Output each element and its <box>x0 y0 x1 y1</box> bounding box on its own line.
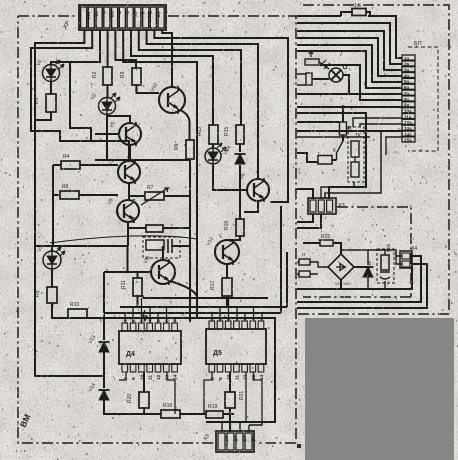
resistor R8 <box>47 287 57 303</box>
wire V8 down to rail <box>127 223 129 246</box>
wire R13 to VD4 <box>212 144 214 148</box>
svg-text:6: 6 <box>164 319 170 322</box>
wire y38 <box>297 38 402 76</box>
wire pin11 to V10 <box>162 30 172 87</box>
svg-text:БП: БП <box>414 41 422 47</box>
zener VD5 <box>235 154 246 164</box>
resistor R5 <box>186 140 194 159</box>
svg-text:R11: R11 <box>121 280 127 289</box>
wire to X3 pin3 <box>325 131 381 199</box>
svg-text:1а: 1а <box>404 56 410 61</box>
connector X2 (bottom plug, 4 pins) <box>216 431 255 452</box>
svg-text:14: 14 <box>259 374 265 380</box>
relay K3 box <box>318 156 332 165</box>
wire R15 to VD5 <box>239 144 241 152</box>
wire x70 vertical <box>70 62 91 141</box>
wire R10v join <box>138 296 144 298</box>
wire rail y306 <box>120 306 287 308</box>
relay K1 dashed box <box>143 237 180 258</box>
wire pin6 rail x197 <box>123 30 197 318</box>
relay K1 coil <box>146 240 164 250</box>
wire R8 to rail y318 <box>52 303 275 422</box>
wire base rail y272 <box>104 246 151 313</box>
wire diode column <box>103 314 105 340</box>
wire lamp col <box>342 107 344 122</box>
svg-text:R10: R10 <box>70 302 79 308</box>
resistor R26 <box>381 255 389 270</box>
resistor R21 <box>225 392 235 408</box>
relay contact K2 box <box>306 73 312 85</box>
wire V9 bottom <box>244 202 258 212</box>
switch blade SB <box>337 141 344 160</box>
transformer winding T1a <box>299 259 310 265</box>
wire y45 <box>297 45 402 82</box>
arrow at IC D4 <box>143 310 147 321</box>
wire bridge bottom <box>340 280 342 289</box>
wire VD5 down <box>239 165 241 219</box>
wire relay right <box>172 245 190 247</box>
wire y131 <box>297 130 402 132</box>
resistor R20 <box>139 392 149 408</box>
wire R1 down <box>35 112 51 120</box>
wire R16 to V12 <box>227 236 240 240</box>
dashed box around filter <box>377 249 394 283</box>
svg-text:9: 9 <box>131 377 137 380</box>
wire y94 <box>297 93 402 95</box>
wire V11 emitter <box>170 281 197 296</box>
resistor R4b <box>60 191 79 199</box>
wire y65 staircase <box>320 65 402 100</box>
svg-text:R25: R25 <box>321 234 330 240</box>
svg-text:5а: 5а <box>404 79 410 84</box>
LED VD4 <box>205 143 226 164</box>
zener VD9 <box>367 250 369 289</box>
wire R2 to VD2 <box>107 85 109 98</box>
wire R25 <box>303 243 341 254</box>
connector X4 (2 pins) <box>400 251 412 268</box>
wire R5 long rail <box>189 159 191 322</box>
wire BP lower pins <box>297 137 402 155</box>
wires IC D5 top pins <box>212 298 262 321</box>
transistor V5 <box>119 122 141 146</box>
wire rail y246 <box>52 246 128 251</box>
capacitor C2 <box>380 270 390 289</box>
wire right verticals <box>281 206 287 313</box>
wire R6 ends <box>129 195 190 197</box>
wire V12 down <box>226 264 228 278</box>
wire y122 <box>297 121 339 123</box>
wire IC D4 bottom stubs <box>119 372 175 414</box>
svg-text:14: 14 <box>173 374 179 380</box>
svg-text:Д5: Д5 <box>213 350 222 357</box>
svg-text:9: 9 <box>218 377 224 380</box>
wire BK up1 <box>353 118 402 127</box>
svg-text:4а: 4а <box>404 73 410 78</box>
svg-text:R17: R17 <box>210 281 216 290</box>
gray block <box>305 318 454 460</box>
resistor R3 <box>132 68 141 85</box>
resistor R9h <box>68 309 87 318</box>
resistor R25 <box>320 240 333 246</box>
svg-text:R15: R15 <box>224 127 230 136</box>
wire V5 base stub <box>95 133 119 135</box>
contact circle <box>343 65 347 69</box>
resistor R7 <box>146 225 163 232</box>
svg-text:12а: 12а <box>404 120 412 125</box>
IC D4 (logic chip) <box>119 319 181 380</box>
wire pin10 nested <box>154 30 288 202</box>
svg-text:R13: R13 <box>197 127 203 136</box>
wire base rail y160 <box>95 159 190 161</box>
transformer winding T1b <box>299 271 310 277</box>
svg-text:1: 1 <box>123 319 129 322</box>
svg-text:12: 12 <box>156 374 162 380</box>
svg-text:ТК: ТК <box>355 133 361 139</box>
svg-text:11: 11 <box>234 375 240 380</box>
wire R4a <box>53 164 118 166</box>
wire top line y16 <box>297 16 402 58</box>
capacitor C1 plates <box>168 239 172 253</box>
wire V11 collector <box>162 246 164 260</box>
wire pin7 to R13 <box>131 30 213 125</box>
IC D5 (logic chip) <box>206 317 266 380</box>
svg-text:R21: R21 <box>239 391 245 400</box>
resistor R22 bypass loop <box>341 12 370 16</box>
wire rail y314 <box>104 312 281 314</box>
dash-dot border of control unit (left panel) <box>18 16 296 443</box>
svg-text:7: 7 <box>115 11 121 14</box>
switch SA1 arrow <box>309 51 313 57</box>
svg-text:R2: R2 <box>92 71 98 78</box>
wire BK up2 <box>360 124 402 127</box>
svg-text:R3: R3 <box>120 71 126 78</box>
wire V5 to V7 <box>129 146 131 161</box>
svg-text:3а: 3а <box>404 68 410 73</box>
dash-dot border of right panel <box>297 5 449 314</box>
wire pin1 to LED VD1 <box>35 30 104 376</box>
svg-text:V17-V20: V17-V20 <box>335 281 351 286</box>
resistor R4a <box>61 161 80 169</box>
switch SA1 box <box>305 59 319 65</box>
svg-text:15а: 15а <box>404 138 412 143</box>
wire pin9 to V9 <box>147 30 258 179</box>
svg-text:7а: 7а <box>404 91 410 96</box>
svg-text:1,6: 1,6 <box>354 3 361 9</box>
wire BK down <box>321 182 354 199</box>
wire y107 <box>297 106 402 108</box>
svg-text:5: 5 <box>156 319 162 322</box>
wire R21 <box>229 372 231 432</box>
svg-text:Х4: Х4 <box>411 246 417 252</box>
wires IC D4 top pins <box>125 298 175 323</box>
wire X4 upper pin wire <box>396 256 402 264</box>
wire K2 stubs <box>297 74 306 85</box>
variable resistor R6 <box>145 192 164 200</box>
svg-text:1: 1 <box>162 11 168 14</box>
wire R23 down <box>342 135 344 141</box>
wire bridge right <box>354 266 368 268</box>
wire y51 <box>297 51 402 88</box>
transistor V9 <box>247 178 269 202</box>
svg-text:9а: 9а <box>404 103 410 108</box>
wire VD7 to y414 <box>104 400 161 414</box>
wire VD4 down <box>213 164 246 190</box>
svg-text:R7: R7 <box>147 185 154 191</box>
transistor V12 <box>215 239 239 265</box>
wire R17 down <box>226 296 228 306</box>
transistor V11 <box>151 259 175 285</box>
svg-text:R18: R18 <box>163 403 172 409</box>
wire K2 to lamp <box>312 78 329 80</box>
wire to X3 pin1 <box>297 189 313 199</box>
wire R4b <box>53 165 118 246</box>
resistor R24b <box>351 162 359 177</box>
resistor R16 <box>236 219 244 236</box>
curved wire <box>50 236 197 243</box>
wire K3 bracket <box>297 153 337 162</box>
wire y31 <box>297 31 402 70</box>
resistor R15 <box>236 125 244 144</box>
wire V7 to V8 <box>128 184 130 200</box>
transistor V7 <box>118 160 140 184</box>
svg-text:R6: R6 <box>62 184 69 190</box>
resistor R17 <box>222 278 232 296</box>
svg-text:2а: 2а <box>404 62 410 67</box>
resistor R18 <box>161 410 180 418</box>
svg-text:R19: R19 <box>208 404 217 410</box>
wire pin3 via x70 <box>51 30 100 65</box>
resistor R23 <box>340 122 347 135</box>
wire R3 to V10 base <box>137 85 160 93</box>
svg-text:R20: R20 <box>127 394 133 403</box>
svg-text:4: 4 <box>148 319 154 322</box>
svg-text:V16: V16 <box>367 260 372 269</box>
bridge rectifier VD8 <box>328 254 354 280</box>
svg-text:а4: а4 <box>249 436 255 442</box>
connector X1 (top plug, 11 pins) <box>79 5 168 30</box>
resistor R2 <box>103 67 112 85</box>
zener VD6 <box>99 342 110 352</box>
svg-text:1: 1 <box>210 317 216 320</box>
svg-text:Х3: Х3 <box>338 203 345 209</box>
svg-text:R5: R5 <box>174 143 180 150</box>
wire pin2 rail left <box>31 30 129 161</box>
wire VD1 to R1 <box>50 81 52 94</box>
wire IC D5 bottom stubs <box>204 372 262 422</box>
wire top rail y250 <box>341 250 402 256</box>
wire y23 <box>297 23 402 64</box>
dashed box of BP connector <box>408 47 438 151</box>
wire R7 ends <box>128 227 190 229</box>
wire VD2 down <box>106 114 108 160</box>
wire R20 <box>143 372 145 414</box>
svg-text:14а: 14а <box>404 132 412 137</box>
wire R26 top <box>384 250 386 255</box>
wire pin4 to R2 <box>107 30 109 67</box>
svg-text:R1: R1 <box>34 97 40 104</box>
wire pin8 to R15 <box>139 30 241 125</box>
zener VD7 <box>99 390 110 400</box>
wire pin5 to R3 <box>115 30 136 68</box>
svg-text:Н: Н <box>302 252 305 257</box>
dash-dot border of power block <box>303 207 411 297</box>
transistor V8 <box>117 199 139 223</box>
svg-text:6: 6 <box>123 11 129 14</box>
svg-text:R4: R4 <box>63 154 70 160</box>
wire V5 top <box>108 116 131 123</box>
connector BP (power plug, 15 pins) <box>402 55 415 143</box>
dashed box BK <box>348 127 364 182</box>
wire SA1 to lamp <box>319 62 329 69</box>
resistor R1 <box>46 94 56 112</box>
LED VD3 <box>43 247 65 269</box>
svg-text:R26: R26 <box>386 243 391 252</box>
svg-text:6а: 6а <box>404 85 410 90</box>
optical ticks <box>320 60 330 69</box>
svg-text:Д4: Д4 <box>126 351 135 358</box>
svg-text:13а: 13а <box>404 126 412 131</box>
resistor R24a <box>351 141 359 157</box>
wire VD3 to R8 <box>51 269 53 287</box>
lamp HL1 <box>329 68 343 82</box>
svg-text:R8: R8 <box>131 216 137 223</box>
connector X3 (3 pins) <box>308 198 336 214</box>
wire VD6-VD7 <box>103 352 105 388</box>
wire lamp down <box>343 75 349 94</box>
wire R24 mid <box>354 157 356 162</box>
wire to X2 pins <box>222 422 262 431</box>
wire R18-R19 <box>180 413 206 415</box>
wire R19 right <box>223 413 234 415</box>
wire rail y298 <box>143 297 268 299</box>
wire R10v <box>137 272 139 306</box>
resistor R10v <box>133 278 142 296</box>
LED VD1 <box>43 60 65 82</box>
black speck at left of gray block <box>297 444 301 448</box>
svg-text:9: 9 <box>100 11 106 14</box>
LED VD2 <box>99 93 121 115</box>
svg-text:К: К <box>333 148 336 154</box>
wire X4 loop rails <box>297 256 427 308</box>
svg-text:11: 11 <box>148 375 154 380</box>
wire windings <box>297 262 328 274</box>
wire y113 nested to X3 <box>297 113 366 199</box>
transistor V10 <box>159 86 185 114</box>
svg-text:10: 10 <box>92 11 98 17</box>
resistor R13 <box>209 125 218 144</box>
resistor R19 <box>206 411 223 418</box>
wire below X3 <box>297 214 321 228</box>
svg-text:8а: 8а <box>404 97 410 102</box>
wire V10 emitter to R5 <box>180 110 190 140</box>
svg-text:11а: 11а <box>404 114 412 119</box>
